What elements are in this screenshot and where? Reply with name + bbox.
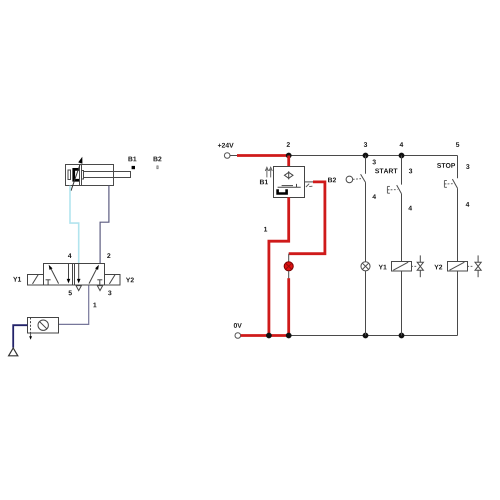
indicator lamp col3 (361, 262, 370, 271)
START pushbutton actuator (387, 186, 397, 193)
STOP pushbutton actuator (444, 181, 453, 188)
valve left-box blocked port T (46, 280, 51, 286)
lamp lead top (288, 254, 290, 262)
Y2 link dashes (467, 265, 473, 267)
proximity switch box B1 (274, 167, 305, 198)
node top col3 (363, 153, 369, 159)
top rail live wire (237, 154, 289, 157)
indicator lamp lit (284, 262, 293, 271)
wire col5 upper (457, 156, 459, 179)
wire col3 upper (365, 156, 367, 174)
valve 1V body (44, 264, 105, 286)
port label 2 (107, 253, 110, 258)
label B1 (box) (260, 180, 268, 185)
wire col4 lower (401, 271, 403, 336)
column label 5 (456, 142, 459, 147)
relay coil Y2 (448, 262, 468, 272)
wire col4 upper (401, 156, 403, 185)
label +24V (218, 143, 234, 148)
contact START terminal 3 (409, 169, 412, 174)
service unit drain arrow (29, 333, 32, 340)
pipe port4 (cyan) (70, 186, 79, 264)
label START (375, 168, 397, 173)
column label 2 (287, 142, 290, 147)
node top col4 (399, 153, 405, 159)
live wire lamp to 0V (287, 278, 290, 336)
piston rod (84, 172, 131, 178)
B1 box contact line (278, 184, 301, 187)
label Y2 (coil) (434, 265, 442, 270)
bottom rail live wire (241, 334, 291, 337)
contact START terminal 4 (408, 206, 412, 211)
wire col3 mid (365, 182, 367, 261)
valve right-box blocked port T (97, 280, 102, 286)
Y1 valve icon (417, 255, 423, 277)
label B2 (cylinder) (154, 157, 162, 162)
exhaust triangle port3 (97, 286, 102, 291)
contact STOP terminal 3 (466, 164, 469, 169)
solenoid pilot Y2 (105, 275, 121, 286)
column label 4 (400, 142, 404, 147)
valve right-box down flow line (77, 264, 81, 284)
contact B2 blade (361, 174, 366, 182)
B1 actuation arrows (265, 167, 272, 177)
relay coil Y1 (392, 262, 412, 272)
node bottom col4 (399, 333, 405, 339)
live wire B1 bottom to 0V (269, 197, 289, 335)
wire rail to B1 box (live) (287, 156, 290, 167)
sensor marker B2 (157, 166, 158, 169)
cylinder cushion sleeve (68, 170, 71, 180)
bottom rail wire (241, 335, 458, 337)
wire col4 mid (401, 194, 403, 262)
valve left-box down flow line (67, 264, 71, 284)
contact STOP terminal 4 (466, 202, 470, 207)
B1 box magnet (276, 189, 288, 194)
lamp lead bottom (288, 271, 290, 279)
exhaust triangle port5 (76, 286, 81, 291)
sensor marker B1 (132, 166, 135, 169)
label Y1 (coil) (379, 265, 387, 270)
cylinder piston disc (80, 165, 82, 186)
Y2 valve icon (475, 255, 481, 277)
B1 output contact mark (306, 184, 313, 187)
wire col3 lower (365, 271, 367, 336)
B2 link dashes (353, 178, 361, 181)
Y1 link dashes (411, 265, 417, 267)
valve right-box flow arrow (89, 265, 99, 284)
column label 3 (364, 142, 367, 147)
node bottom col3 (363, 333, 369, 339)
port label 4 (68, 253, 72, 258)
B1 box sensor diamond (284, 171, 293, 179)
label Y2 (valve) (126, 278, 134, 283)
cylinder 1A body (66, 165, 114, 186)
label Y1 (valve) (13, 277, 21, 282)
contact B2 terminal 3 (372, 160, 375, 165)
wire col5 lower (457, 271, 459, 336)
compressed air source (9, 348, 18, 356)
B1 output stub (304, 181, 313, 183)
sensor B2 circle (346, 176, 353, 183)
wire label 1 (264, 227, 267, 232)
label B1 (cylinder) (128, 157, 136, 162)
contact STOP blade (452, 179, 457, 188)
pipe port1 (59, 285, 89, 324)
terminal +24V (224, 153, 230, 159)
stroke arrow (71, 157, 82, 191)
cylinder piston magnet (72, 168, 79, 182)
live wire B1 out to lamp branch (289, 182, 325, 254)
wire col5 mid (457, 188, 459, 261)
valve left-box flow arrow (49, 265, 59, 284)
supply pipe (13, 325, 27, 347)
top rail wire (230, 155, 458, 157)
label STOP (437, 163, 455, 168)
node bottom col2 (286, 333, 292, 339)
label B2 (contact) (328, 178, 336, 183)
node top col2 (286, 153, 292, 159)
node bottom col1 (266, 333, 272, 339)
port label 5 (69, 291, 72, 296)
port label 3 (108, 290, 111, 295)
piston rod collar (82, 171, 84, 180)
pipe port2 (100, 186, 109, 264)
port label 1 (93, 303, 96, 308)
contact B2 terminal 4 (372, 194, 376, 199)
contact START blade (397, 185, 402, 194)
label 0V (234, 323, 242, 328)
terminal 0V (235, 333, 241, 339)
solenoid pilot Y1 (28, 275, 44, 286)
service unit 0Z (28, 318, 59, 334)
